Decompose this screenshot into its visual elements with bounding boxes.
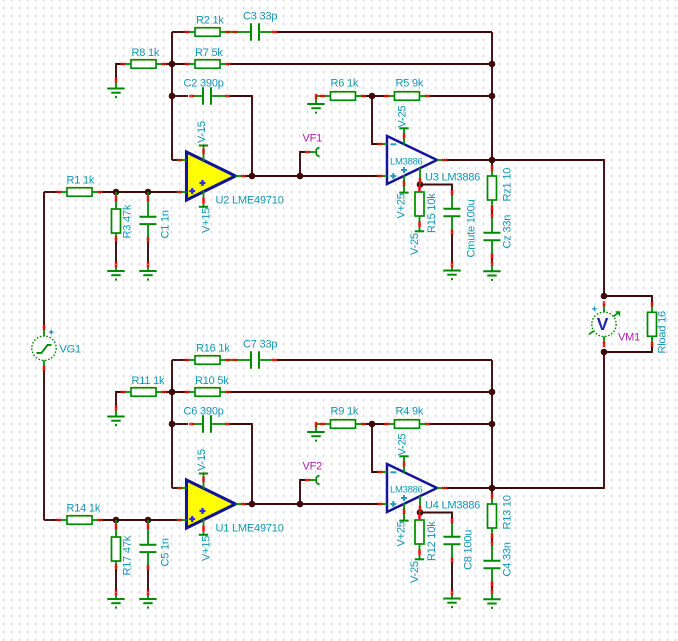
svg-text:R8 1k: R8 1k <box>132 47 160 59</box>
svg-text:R5 9k: R5 9k <box>396 78 424 90</box>
svg-text:V-25: V-25 <box>397 434 409 456</box>
svg-text:V+25: V+25 <box>396 193 408 218</box>
svg-text:V-25: V-25 <box>397 106 409 128</box>
svg-text:C4 33n: C4 33n <box>502 542 514 576</box>
svg-text:V-25: V-25 <box>409 233 421 255</box>
svg-text:R2 1k: R2 1k <box>196 15 224 27</box>
svg-text:U1 LME49710: U1 LME49710 <box>216 523 284 535</box>
svg-text:LM3886: LM3886 <box>390 157 423 168</box>
svg-text:U3 LM3886: U3 LM3886 <box>425 172 480 184</box>
svg-text:V: V <box>597 314 609 334</box>
svg-text:VF2: VF2 <box>303 461 323 473</box>
svg-text:R10 5k: R10 5k <box>195 375 229 387</box>
svg-text:R3 47k: R3 47k <box>122 204 134 238</box>
svg-text:R14 1k: R14 1k <box>67 503 101 515</box>
svg-text:Rz1 10: Rz1 10 <box>502 168 514 202</box>
svg-text:R13 10: R13 10 <box>502 495 514 529</box>
svg-text:Rload 16: Rload 16 <box>657 311 669 354</box>
svg-text:Cz 33n: Cz 33n <box>502 215 514 249</box>
svg-text:R15 10k: R15 10k <box>426 193 438 233</box>
svg-text:VF1: VF1 <box>303 133 323 145</box>
svg-text:VM1: VM1 <box>618 332 640 344</box>
svg-text:C5 1n: C5 1n <box>160 538 172 566</box>
svg-text:C1 1n: C1 1n <box>160 210 172 238</box>
svg-text:C2 390p: C2 390p <box>184 78 224 90</box>
svg-text:U4 LM3886: U4 LM3886 <box>425 500 480 512</box>
svg-text:V-25: V-25 <box>409 561 421 583</box>
svg-text:LM3886: LM3886 <box>390 485 423 496</box>
svg-text:V+15: V+15 <box>201 536 213 561</box>
svg-text:VG1: VG1 <box>60 344 81 356</box>
svg-text:C3 33p: C3 33p <box>243 11 277 23</box>
svg-text:R9 1k: R9 1k <box>331 406 359 418</box>
svg-text:R16 1k: R16 1k <box>196 343 230 355</box>
svg-text:U2 LME49710: U2 LME49710 <box>216 195 284 207</box>
svg-text:R17 47k: R17 47k <box>122 535 134 575</box>
svg-text:V-15: V-15 <box>196 449 208 471</box>
svg-text:C6 390p: C6 390p <box>184 406 224 418</box>
svg-text:R11 1k: R11 1k <box>132 375 166 387</box>
svg-text:Cmute 100u: Cmute 100u <box>466 199 478 257</box>
svg-text:C8 100u: C8 100u <box>463 530 475 570</box>
svg-text:R6 1k: R6 1k <box>331 78 359 90</box>
svg-text:R4 9k: R4 9k <box>396 406 424 418</box>
svg-text:C7 33p: C7 33p <box>243 339 277 351</box>
svg-text:V-15: V-15 <box>196 121 208 143</box>
svg-text:R1 1k: R1 1k <box>67 175 95 187</box>
svg-text:R12 10k: R12 10k <box>426 521 438 561</box>
svg-text:R7 5k: R7 5k <box>195 47 223 59</box>
svg-text:V+25: V+25 <box>396 521 408 546</box>
svg-text:V+15: V+15 <box>201 208 213 233</box>
